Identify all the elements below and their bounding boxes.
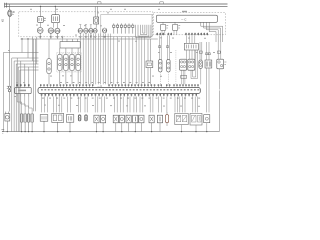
ground tick marks left margin [1, 20, 4, 22]
connector block C2 (hatched box) [184, 43, 198, 50]
wires capsules A/B down (dashed) [160, 72, 168, 84]
wires C2 up [186, 35, 194, 43]
solenoid valve V2 [101, 115, 106, 131]
EGR valve group (outer box) [175, 113, 188, 124]
junction block label [182, 11, 187, 12]
injector #3 [70, 54, 74, 70]
wires throttle sensor A to ECU [182, 70, 185, 84]
VSV 2 [119, 115, 124, 131]
wire injector 4 to ECU [77, 71, 79, 85]
wire fuse down [95, 24, 97, 28]
VSV 3 [126, 115, 131, 131]
wire R1 to connector O1 [39, 22, 41, 27]
injector #4 dashed box [75, 53, 81, 72]
wire code labels (specks) [42, 82, 200, 99]
assorted tiny labels (specks) [8, 9, 215, 107]
relay Rb [172, 24, 180, 30]
VSV 5 [139, 115, 144, 131]
wire R2 to connector O3 [57, 23, 59, 28]
oval connector up-stems [79, 25, 95, 29]
wire bundle relays to harness [40, 34, 62, 40]
wire waterfall to ECU [81, 34, 145, 85]
connector O5 [84, 28, 88, 33]
wire injector 2 to ECU [65, 71, 67, 85]
wires C2 down [186, 50, 194, 59]
connector O7 [93, 28, 97, 33]
wire fuel pump to ground bus [6, 121, 8, 132]
wires resistor box to ECU [148, 68, 151, 85]
connector O1 [37, 28, 43, 34]
resistor box (mid-air component) [146, 61, 153, 68]
wire flat box to injector 1 [59, 48, 61, 54]
ground bus (bottom line) [2, 131, 219, 133]
sensor S1 (capsule) [47, 59, 51, 74]
injector #1 dashed box [57, 53, 63, 72]
diode (brown capsule) [166, 112, 169, 126]
wire fusible link down [9, 17, 11, 86]
ECU top pin row [40, 84, 198, 87]
dashed wire x176 [175, 50, 177, 84]
junction dot bus/R2 [55, 6, 56, 7]
nested wire bundle right of J/B [201, 22, 223, 42]
wire R2 to connector O2 [53, 23, 55, 28]
water temp sensor [199, 60, 202, 68]
connector bump on bus at x161 [160, 2, 164, 4]
injector #2 [64, 54, 68, 70]
connector bump on bus at x99 [98, 2, 102, 4]
connector O6 [89, 28, 93, 33]
ground bus junction dots [7, 131, 208, 132]
inline connector on left wire [7, 86, 11, 92]
ECU bottom pin row [41, 94, 197, 97]
wires temp sensor [200, 42, 202, 84]
wires relays down [162, 30, 177, 34]
wires oxygen sensor [206, 42, 209, 112]
distributor pickup (circle pair right) [217, 59, 227, 69]
junction block J/B (wide bar) [156, 15, 217, 22]
connector O2 [48, 28, 54, 33]
EGR valve inner B [182, 115, 187, 121]
harness wire (horizontal) [21, 38, 158, 40]
wires distributor [218, 42, 221, 90]
left routing wire bundle (nested loops) [3, 53, 38, 132]
oxygen sensor block (hatched) [205, 60, 212, 68]
double vertical pass-by wires [34, 39, 36, 111]
wire injector 3 to ECU [71, 71, 73, 85]
relay R2 (circuit opening relay) [52, 15, 60, 23]
svg-text:⎓ C: ⎓ C [98, 84, 103, 88]
throttle sensor (double circle pair B) [188, 59, 195, 70]
VSV 4 [133, 115, 138, 131]
injector #3 dashed box [69, 53, 75, 72]
air flow meter inner A [191, 115, 196, 122]
check connector box outline [101, 15, 152, 37]
air flow meter group (outer box) [190, 113, 202, 125]
fusible link terminal ticks [12, 11, 14, 14]
wire flat box to injector 4 [77, 48, 79, 54]
wire bus to fusible link [9, 4, 11, 10]
VSV 6 [149, 115, 154, 131]
connector O8 [102, 28, 106, 33]
nested wire loop bundle (check box) [136, 25, 151, 38]
ISC valve [204, 115, 210, 123]
solenoid valve V1 [94, 115, 99, 131]
VSV 7 [157, 115, 162, 131]
injector #2 dashed box [63, 53, 69, 72]
ECU connector A (box1) [15, 87, 31, 93]
fuel pump (box with circle) [5, 112, 10, 121]
connector pin row (cowl box bottom) [157, 33, 208, 36]
fuse F1 (EFI fuse) [94, 17, 99, 24]
wire bundle harness to ECU connector A [17, 37, 37, 85]
injector #1 [58, 54, 62, 70]
ECU main bar [38, 88, 200, 94]
wire ISC to ground bus [206, 123, 208, 132]
wire flat box to injector 2 [65, 48, 67, 54]
ECU connector A top pins [17, 84, 30, 87]
ignition coil resistors (hatched bars) [20, 114, 33, 132]
power bus IG (second line) [5, 5, 228, 7]
diagnostic terminal pins T1-T6 [113, 23, 134, 33]
wire sensor S1 to ECU [48, 74, 50, 85]
junction connector (flat box) [60, 42, 80, 48]
VSV 1 [113, 115, 118, 131]
condenser box [40, 115, 48, 132]
nested loop bundle below sensor B [191, 50, 197, 79]
wires capsules A/B up [159, 35, 169, 59]
speed sensor capsule B [167, 59, 170, 72]
coil box [66, 115, 73, 132]
capsule sensor D [78, 115, 81, 121]
wire ground bus right end down [218, 90, 220, 131]
wires flat box up [62, 39, 77, 42]
relay R1 (EFI main relay) [38, 17, 44, 23]
junction dot on harness 2 [27, 38, 28, 39]
wire bus to relay R2 [54, 6, 56, 14]
wire injector 1 to ECU [59, 71, 61, 85]
speed sensor capsule A [159, 59, 162, 72]
inline connector on sensor A wires [181, 76, 187, 79]
wire pair bus to fuse [95, 6, 97, 17]
throttle sensor (double circle pair A) [180, 59, 187, 70]
wires connector A to ignition resistors [17, 97, 32, 114]
ECU connector A bottom pins [17, 94, 29, 97]
connector ticks on enclosure bottom edge [39, 36, 105, 38]
wire J/B to relay Ra [162, 22, 164, 24]
capsule sensor E [85, 115, 88, 121]
igniter box (hatched double) [52, 113, 64, 131]
wires to resistor box [148, 39, 151, 61]
connector O3 [55, 28, 60, 33]
wire J/B to relay Rb [174, 22, 176, 24]
wire harness to sensor S1 [48, 39, 50, 59]
relay Ra [160, 24, 168, 30]
ECU bar internal pin numbers (specks) [41, 89, 199, 90]
svg-text:⎓ C: ⎓ C [181, 17, 187, 21]
power bus B+ (top line) [5, 3, 228, 5]
injector #4 [76, 54, 80, 70]
wire flat box to injector 3 [71, 48, 73, 54]
EGR valve inner A [176, 115, 181, 121]
wire bundle ECU to bottom components [42, 97, 198, 113]
wire EGR group to ground bus [181, 125, 183, 132]
inline connector squares right section [159, 46, 221, 55]
wire bus to relay R1 [40, 6, 42, 16]
wire air flow group to ground bus [195, 125, 197, 132]
junction dot on harness 1 [21, 38, 22, 39]
air flow meter inner B [197, 115, 201, 122]
dashed enclosure (engine compartment) [19, 12, 153, 37]
relay R1 terminal ticks [44, 18, 46, 20]
dashed enclosure (cowl / junction block) [154, 13, 226, 35]
fusible link FL (oval component) [8, 10, 12, 17]
wire left connector down [9, 92, 11, 112]
bus left end ticks [5, 3, 7, 8]
junction dot bus/R1 [40, 6, 41, 7]
connector O4 [78, 28, 82, 33]
ground symbol left end [1, 130, 4, 133]
